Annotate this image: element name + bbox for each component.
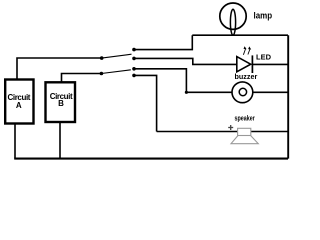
wire: lamp branch horizontal	[192, 34, 288, 36]
switch S1 (upper SPDT)	[100, 48, 136, 60]
node: S1 throw contact bottom	[132, 57, 136, 61]
node: S1 throw contact top	[132, 48, 136, 52]
wire: S2 bottom contact to speaker branch	[134, 75, 157, 131]
LED D1	[237, 46, 253, 73]
svg-text:B: B	[58, 99, 64, 108]
node: S2 throw contact top	[132, 67, 136, 71]
svg-text:speaker: speaker	[235, 113, 255, 122]
wire: S1 lever	[102, 54, 132, 58]
wire: Circuit B top riser	[62, 74, 102, 83]
svg-text:LED: LED	[256, 53, 272, 62]
wire: S2 top contact to buzzer branch	[134, 69, 186, 93]
node: S1 common pole	[100, 56, 104, 60]
svg-text:lamp: lamp	[254, 10, 273, 21]
speaker SP1	[231, 128, 258, 143]
LED arrow 1	[243, 49, 245, 55]
wire: LED to bus	[252, 63, 288, 65]
speaker SP1 polarity +	[228, 125, 233, 130]
svg-text:A: A	[16, 101, 22, 110]
wire: Circuit B bottom drop	[59, 122, 61, 159]
svg-text:buzzer: buzzer	[235, 72, 258, 81]
node: S2 throw contact bottom	[132, 74, 136, 78]
wire: Circuit A bottom drop	[14, 124, 16, 159]
wire: S2 lever	[101, 70, 130, 74]
wire: Circuit A top riser	[17, 58, 102, 80]
circuit box B	[46, 82, 76, 122]
buzzer BZ1	[232, 82, 253, 103]
lamp L1	[220, 3, 246, 35]
switch S2 (lower SPDT)	[100, 67, 136, 77]
LED triangle	[237, 57, 251, 72]
LED arrow 2	[248, 49, 250, 55]
wire: buzzer branch horizontal	[186, 91, 288, 93]
wire: speaker branch horizontal	[157, 131, 288, 133]
wire: right return bus	[287, 35, 289, 158]
wire: S1 top contact to lamp branch	[134, 35, 192, 49]
LED cathode bar	[251, 55, 253, 73]
wire: S1 bottom contact to LED branch	[134, 58, 237, 64]
node: buzzer branch junction	[185, 91, 188, 94]
wire: bottom return	[14, 158, 288, 160]
node: S2 common pole	[100, 72, 104, 76]
circuit box A	[5, 80, 33, 124]
